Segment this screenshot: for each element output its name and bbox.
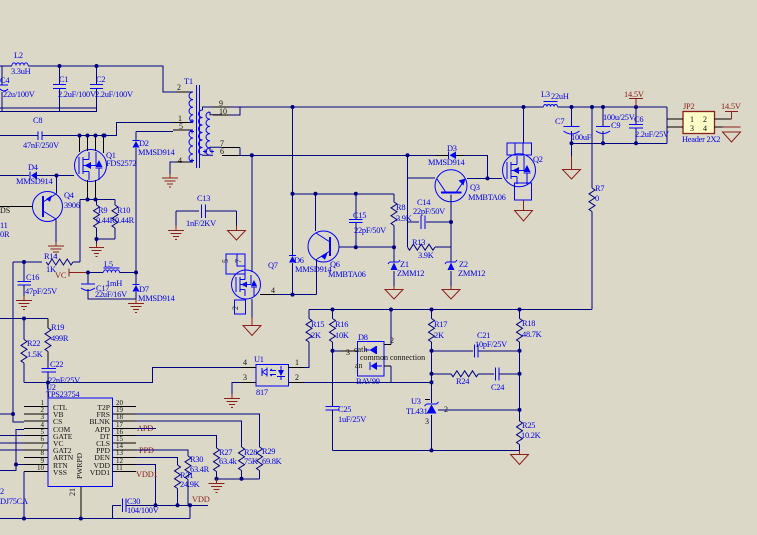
svg-text:22pF/50V: 22pF/50V	[354, 226, 386, 235]
svg-text:2.2uF/100V: 2.2uF/100V	[95, 90, 133, 99]
pin 2	[176, 91, 189, 93]
wire D8 pin1 drop	[390, 366, 392, 382]
wire rail to JP2	[666, 107, 668, 143]
wire C17/D7 ground drop	[135, 299, 137, 303]
transistor Q7 dual mosfet	[221, 254, 278, 314]
wire Q2 source to ground	[523, 200, 525, 210]
wire VC node	[88, 272, 103, 274]
svg-text:C21: C21	[477, 331, 490, 340]
inductor L5	[104, 260, 137, 288]
svg-text:ZMM12: ZMM12	[458, 269, 485, 278]
net label VC	[55, 269, 88, 281]
wire PPD to R30	[136, 450, 188, 456]
svg-text:14.5V: 14.5V	[624, 90, 644, 99]
wire long vertical x292.5	[292, 107, 294, 295]
svg-text:DJ75CA: DJ75CA	[0, 497, 28, 506]
svg-text:3.3uH: 3.3uH	[11, 67, 31, 76]
svg-text:JP2: JP2	[683, 102, 695, 111]
svg-text:MMSD914: MMSD914	[428, 158, 465, 167]
transformer T1	[173, 77, 240, 168]
svg-text:1: 1	[295, 358, 299, 367]
wire feedback bottom rail	[333, 449, 520, 451]
svg-text:R28: R28	[244, 448, 257, 457]
svg-text:0.44R: 0.44R	[115, 216, 135, 225]
svg-text:PWRPD: PWRPD	[75, 452, 84, 479]
wire sec top 9/10 parallel	[229, 107, 240, 115]
wire D3 out to Q2 gate	[464, 155, 502, 178]
svg-text:L3: L3	[541, 90, 550, 99]
svg-text:6: 6	[220, 147, 224, 156]
svg-text:22uH: 22uH	[551, 92, 569, 101]
svg-text:0: 0	[595, 194, 599, 203]
svg-text:817: 817	[256, 388, 268, 397]
svg-text:4: 4	[271, 286, 275, 295]
svg-text:2.2uF/25V: 2.2uF/25V	[635, 130, 669, 139]
svg-text:48.7K: 48.7K	[522, 330, 542, 339]
svg-text:10pF/25V: 10pF/25V	[475, 340, 507, 349]
diode D7	[133, 273, 176, 304]
svg-text:R16: R16	[335, 320, 348, 329]
pin 7	[222, 146, 240, 148]
svg-text:T1: T1	[184, 77, 193, 86]
wire U1 pin1 to R15	[304, 342, 309, 368]
zener Z2	[445, 247, 485, 286]
svg-text:R27: R27	[219, 448, 232, 457]
svg-text:MMBTA06: MMBTA06	[468, 193, 506, 202]
svg-text:22u/100V: 22u/100V	[3, 90, 35, 99]
svg-text:3.9K: 3.9K	[418, 251, 434, 260]
svg-text:D4: D4	[28, 163, 39, 172]
svg-text:R22: R22	[27, 339, 40, 348]
node Q2 drain	[522, 105, 526, 109]
resistor R25	[517, 410, 541, 450]
svg-text:VSS: VSS	[53, 468, 67, 477]
svg-text:R19: R19	[51, 323, 64, 332]
wire U1 pin2 to TL431	[304, 381, 432, 383]
svg-text:1nF/2KV: 1nF/2KV	[186, 219, 216, 228]
wire GAT2 feed	[0, 449, 24, 451]
ground Z1 (power triangle)	[385, 290, 403, 300]
svg-text:7: 7	[234, 259, 243, 263]
wire DEN to R31	[136, 457, 178, 465]
resistor R8	[391, 194, 412, 247]
node C1 top	[58, 64, 62, 68]
svg-text:C4: C4	[0, 76, 10, 85]
diode D2	[133, 132, 176, 273]
diode D8 BAV99	[340, 333, 425, 386]
svg-text:3: 3	[346, 348, 350, 357]
node sec bottom junction	[250, 153, 254, 157]
svg-text:3: 3	[243, 373, 247, 382]
wire drop to Q7	[251, 155, 253, 272]
svg-text:R14: R14	[44, 252, 58, 261]
svg-text:10: 10	[219, 107, 227, 116]
svg-text:499R: 499R	[51, 334, 69, 343]
transistor Q1 FDS2572	[75, 136, 137, 200]
ground C7 (power triangle)	[563, 170, 581, 180]
wire DT to R27	[136, 436, 217, 448]
wire y193.8 node rail	[293, 193, 395, 195]
svg-text:C30: C30	[127, 497, 140, 506]
svg-text:1uF/25V: 1uF/25V	[338, 415, 366, 424]
resistor R15	[306, 310, 324, 368]
ground R27 node (earth)	[209, 479, 225, 493]
pin 4 Q7	[260, 294, 276, 296]
wire output rail y107	[293, 106, 544, 108]
svg-text:1.5K: 1.5K	[27, 350, 43, 359]
capacitor C15	[349, 194, 386, 247]
svg-text:4: 4	[243, 358, 247, 367]
wire BLNK to R28	[136, 421, 242, 447]
svg-text:FDS2572: FDS2572	[106, 159, 136, 168]
svg-text:63.4k: 63.4k	[219, 457, 238, 466]
svg-text:C16: C16	[26, 273, 39, 282]
svg-text:R13: R13	[412, 238, 425, 247]
wire C13 left down	[175, 211, 177, 226]
svg-text:D6: D6	[294, 256, 304, 265]
svg-text:D7: D7	[139, 285, 149, 294]
svg-text:22uF/16V: 22uF/16V	[95, 290, 127, 299]
svg-text:11: 11	[116, 464, 123, 472]
svg-text:8: 8	[41, 449, 45, 457]
svg-text:U1: U1	[254, 355, 264, 364]
resistor R28	[239, 447, 258, 479]
wire Q7 source to ground	[251, 299, 253, 318]
svg-text:14.5V: 14.5V	[721, 102, 741, 111]
ground Q2 (power triangle)	[515, 211, 533, 222]
capacitor C1	[53, 66, 96, 112]
svg-text:2K: 2K	[434, 331, 444, 340]
ground T1 pin4 (earth)	[162, 174, 178, 187]
capacitor C9	[596, 107, 635, 143]
svg-text:R24: R24	[456, 377, 470, 386]
capacitor C30	[113, 497, 159, 519]
svg-text:13: 13	[116, 449, 124, 457]
pin 21	[80, 487, 82, 519]
svg-text:47pF/25V: 47pF/25V	[25, 287, 57, 296]
diode D3	[408, 144, 466, 167]
svg-text:Q2: Q2	[533, 155, 543, 164]
svg-text:C1: C1	[59, 75, 68, 84]
resistor R30	[185, 455, 210, 505]
svg-text:R8: R8	[396, 203, 405, 212]
svg-text:L2: L2	[14, 51, 23, 60]
resistor R10	[112, 200, 135, 240]
wire GATE feed	[0, 435, 24, 437]
svg-text:L5: L5	[104, 260, 113, 269]
connector JP2	[667, 102, 735, 144]
diode D4	[0, 163, 57, 186]
svg-text:Z1: Z1	[400, 260, 409, 269]
wire C7 ground drop	[571, 156, 573, 169]
node x407.5 riser	[406, 153, 410, 157]
transistor Q2 mosfet	[503, 107, 543, 200]
svg-text:C2: C2	[96, 75, 105, 84]
wire gate to Q1	[57, 175, 75, 177]
wire VC feed	[0, 442, 24, 444]
svg-text:D8: D8	[358, 333, 368, 342]
svg-text:C8: C8	[33, 116, 42, 125]
ground U1 pin3 (earth)	[224, 399, 240, 408]
svg-text:2: 2	[703, 115, 707, 124]
svg-text:5: 5	[221, 259, 230, 263]
svg-text:2: 2	[295, 373, 299, 382]
wire top rail y66	[0, 66, 176, 92]
pin 10	[213, 114, 229, 116]
svg-text:an: an	[355, 361, 363, 370]
svg-text:3: 3	[425, 417, 429, 426]
pin 9	[213, 106, 229, 108]
resistor R7	[589, 184, 604, 310]
svg-text:0.44R: 0.44R	[96, 216, 116, 225]
svg-text:VDD: VDD	[192, 495, 210, 504]
wire Q1 source node	[80, 199, 115, 201]
pin 4	[176, 161, 189, 163]
svg-text:TL431: TL431	[406, 407, 428, 416]
resistor R29	[257, 447, 282, 479]
svg-text:69.8K: 69.8K	[262, 457, 282, 466]
svg-text:3906: 3906	[64, 201, 80, 210]
wire feedback rail y309.5	[309, 309, 592, 311]
svg-text:R30: R30	[190, 455, 203, 464]
resistor R13	[408, 238, 452, 260]
secondary winding B	[206, 112, 210, 155]
net label VDD1	[136, 470, 158, 479]
wire VDD node	[156, 504, 209, 506]
resistor R16	[330, 310, 349, 352]
secondary winding A	[199, 110, 203, 155]
capacitor C16	[18, 262, 58, 296]
wire R27 R28 R29 bottom node	[217, 478, 260, 480]
ground Z2 (power triangle)	[442, 290, 460, 300]
svg-text:C24: C24	[491, 383, 505, 392]
wire CTL node y382.5	[24, 383, 48, 407]
diode D6	[289, 256, 332, 275]
svg-text:2.2uF/100V: 2.2uF/100V	[58, 90, 96, 99]
capacitor C2	[90, 66, 133, 108]
svg-text:TPS23754: TPS23754	[46, 390, 80, 399]
net label PPD	[139, 446, 154, 455]
svg-text:2: 2	[0, 487, 4, 496]
svg-text:R7: R7	[595, 184, 604, 193]
svg-text:MMSD914: MMSD914	[295, 265, 332, 274]
svg-text:ZMM12: ZMM12	[397, 269, 424, 278]
pin 6	[222, 154, 240, 156]
resistor R9	[94, 200, 116, 240]
svg-text:VDD1: VDD1	[90, 468, 110, 477]
optocoupler U1 817	[241, 355, 304, 397]
shunt U3 TL431	[406, 382, 448, 450]
wire Q6 base node y247	[339, 246, 394, 248]
wire TL431 ref to R18/R25	[438, 409, 520, 411]
pin stubs right 20-11	[113, 407, 137, 472]
capacitor C14	[408, 198, 452, 229]
svg-text:MMSD914: MMSD914	[138, 294, 175, 303]
transistor Q4 3906	[33, 191, 80, 222]
svg-text:4: 4	[178, 156, 182, 165]
wire source node down to R14	[79, 200, 81, 263]
pin stubs left 1-10	[24, 407, 48, 472]
svg-text:C7: C7	[555, 117, 564, 126]
node Q1 drain pins on C8 rail	[78, 134, 82, 138]
svg-text:R29: R29	[262, 447, 275, 456]
svg-text:4: 4	[703, 124, 707, 133]
capacitor C17	[81, 273, 136, 300]
svg-text:100u/25V: 100u/25V	[603, 113, 635, 122]
resistor R24	[432, 371, 495, 386]
inductor L2	[2, 51, 34, 76]
svg-text:D2: D2	[139, 139, 149, 148]
wire VSS to bottom rail	[23, 472, 25, 519]
svg-text:D3: D3	[447, 144, 457, 153]
wire C8 node to T1 pin1	[105, 123, 174, 136]
svg-text:3: 3	[41, 413, 45, 421]
ground feedback (power triangle)	[511, 450, 529, 464]
ground C17/D7 (earth)	[128, 304, 144, 313]
wire T1 pin4 to ground	[170, 162, 176, 174]
wire bottom rail	[0, 518, 190, 520]
pin 5	[173, 129, 189, 131]
resistor R31	[175, 465, 200, 505]
svg-text:2K: 2K	[311, 331, 321, 340]
svg-text:10K: 10K	[335, 331, 349, 340]
svg-text:0R: 0R	[0, 230, 10, 239]
svg-text:R10: R10	[117, 206, 130, 215]
node R14/C16	[22, 260, 26, 264]
net label APD	[136, 424, 156, 433]
wire Q4 collector down	[55, 220, 57, 243]
svg-text:R9: R9	[98, 206, 107, 215]
capacitor C8	[0, 116, 105, 150]
svg-text:104/100V: 104/100V	[127, 506, 159, 515]
svg-text:Q3: Q3	[470, 183, 480, 192]
capacitor C25	[326, 405, 367, 450]
svg-text:common connection: common connection	[360, 353, 425, 362]
power 14.5V left	[624, 90, 644, 107]
wire bottom rail y111	[0, 108, 97, 112]
ground R9 R10 (earth)	[89, 243, 104, 257]
wire Q3 base feed	[408, 177, 436, 179]
svg-text:MMBTA06: MMBTA06	[328, 270, 366, 279]
svg-text:Q6: Q6	[330, 260, 340, 269]
ground C16 (earth)	[16, 296, 32, 310]
wire Q6 emitter riser	[316, 259, 318, 295]
resistor R14	[13, 252, 80, 274]
svg-text:75K: 75K	[244, 457, 258, 466]
svg-text:C22: C22	[50, 360, 63, 369]
wire R9 R10 bottom node	[97, 239, 116, 243]
svg-text:MMSD914: MMSD914	[16, 177, 53, 186]
svg-text:47nF/250V: 47nF/250V	[23, 141, 59, 150]
svg-text:R25: R25	[522, 421, 535, 430]
svg-text:R31: R31	[180, 471, 193, 480]
wire Q3 collector to gate line	[467, 177, 502, 179]
resistor R22	[21, 319, 43, 383]
svg-text:C9: C9	[611, 121, 620, 130]
wire FRS to R29	[136, 414, 260, 447]
svg-text:C6: C6	[634, 115, 643, 124]
resistor R19	[45, 319, 69, 362]
node L5/D7	[134, 271, 138, 275]
wire Q7 pin4 to D6 node	[276, 294, 317, 296]
wire COM/RTN bus x16	[0, 430, 24, 471]
svg-text:DS: DS	[0, 206, 10, 215]
svg-text:U3: U3	[411, 397, 421, 406]
ground Q7 (power triangle)	[243, 326, 261, 336]
wire Q4 emitter up to D4 node	[56, 176, 58, 194]
ground JP2 pin4 (power triangle)	[723, 127, 741, 142]
power 14.5V right	[721, 102, 741, 119]
pin 1	[173, 122, 189, 124]
svg-text:C13: C13	[197, 194, 210, 203]
capacitor C6	[629, 107, 669, 143]
wire DS net (black) to Q4 base	[0, 206, 33, 208]
wire R7 drop	[591, 107, 593, 188]
svg-text:Q7: Q7	[268, 261, 278, 270]
svg-text:24.9K: 24.9K	[180, 480, 200, 489]
wire R14 node down to VB/CS	[13, 262, 24, 422]
svg-text:5: 5	[179, 122, 183, 131]
wire sec bottom 7/6 parallel	[239, 147, 241, 155]
svg-text:2: 2	[231, 306, 240, 310]
svg-text:C15: C15	[353, 211, 366, 220]
svg-text:VC: VC	[55, 271, 67, 280]
resistor R17	[429, 310, 448, 399]
resistor R18	[517, 310, 542, 411]
inductor L3	[541, 90, 569, 107]
wire VB feed	[0, 413, 13, 415]
IC U2 TPS23754	[24, 383, 136, 519]
wire R19/R22 feed y318.7	[0, 318, 48, 320]
wire VDD to C30	[136, 465, 156, 506]
ground C13 left (earth)	[168, 231, 184, 240]
svg-text:10.2K: 10.2K	[521, 431, 541, 440]
svg-text:R18: R18	[522, 319, 535, 328]
svg-text:C14: C14	[417, 198, 431, 207]
capacitor C13	[176, 194, 237, 228]
svg-text:2: 2	[177, 83, 181, 92]
svg-text:Z2: Z2	[459, 260, 468, 269]
ground C13 right (power triangle)	[228, 231, 246, 241]
resistor R27	[214, 448, 238, 479]
capacitor C24	[491, 368, 520, 393]
phase marks	[190, 119, 214, 163]
capacitor C4	[0, 66, 35, 111]
primary winding 2	[189, 130, 193, 162]
wire D8 pin2 riser	[390, 310, 392, 345]
svg-text:22pF/50V: 22pF/50V	[413, 207, 445, 216]
wire bottom rail riser	[189, 505, 191, 518]
svg-text:MMSD914: MMSD914	[138, 148, 175, 157]
svg-text:BAV99: BAV99	[356, 377, 380, 386]
svg-text:21: 21	[68, 488, 77, 496]
node C2 top	[95, 64, 99, 68]
svg-text:VDD1: VDD1	[136, 470, 158, 479]
svg-text:R17: R17	[434, 320, 447, 329]
svg-text:11: 11	[0, 221, 8, 230]
wire U1 pin3 to ground	[232, 382, 241, 394]
svg-text:10: 10	[37, 464, 45, 472]
svg-text:1: 1	[690, 115, 694, 124]
node R16/D8/C25	[331, 349, 335, 353]
svg-text:3: 3	[690, 124, 694, 133]
wire Q3 bottom lead	[450, 195, 452, 248]
wire Q6 collector drop	[315, 194, 317, 231]
capacitor C7	[555, 107, 592, 156]
svg-text:C25: C25	[338, 405, 351, 414]
zener Z1	[388, 247, 424, 286]
svg-text:Header 2X2: Header 2X2	[682, 135, 720, 144]
